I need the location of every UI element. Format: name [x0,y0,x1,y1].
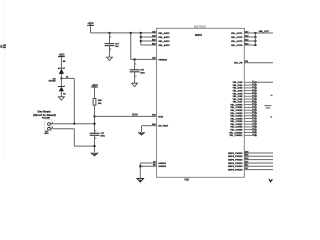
svg-text:A7: A7 [252,97,254,100]
svg-text:VBL_CORE2: VBL_CORE2 [230,110,243,112]
svg-text:VBL_ION4: VBL_ION4 [233,92,244,95]
svg-text:A16: A16 [245,150,248,153]
svg-text:B3: B3 [252,106,254,108]
svg-text:C11: C11 [245,61,248,63]
svg-text:VBL_CORE10: VBL_CORE10 [229,132,243,134]
svg-text:C6: C6 [252,134,254,136]
svg-text:VBL_BAT1: VBL_BAT1 [158,32,170,35]
svg-text:SMPS_PGND4: SMPS_PGND4 [228,165,243,168]
svg-text:SMPS_PGND5: SMPS_PGND5 [228,169,243,171]
svg-text:VBL_OUT1: VBL_OUT1 [231,33,243,35]
svg-text:A4: A4 [252,88,254,91]
svg-text:(Short to Reset): (Short to Reset) [33,113,56,117]
svg-text:A5: A5 [252,91,254,94]
svg-text:VBL_CORE4: VBL_CORE4 [230,115,243,118]
svg-text:BQ76925: BQ76925 [194,24,206,28]
svg-text:1: 1 [110,36,111,38]
svg-text:A13: A13 [152,30,155,33]
svg-text:100n: 100n [100,136,105,138]
svg-text:VBL_BAT3: VBL_BAT3 [158,40,170,43]
svg-text:100n: 100n [140,72,145,74]
svg-text:C2: C2 [252,123,254,125]
svg-text:VBL_CORE6: VBL_CORE6 [230,121,243,123]
svg-text:VBL_CORE8: VBL_CORE8 [230,127,243,129]
svg-text:SR_TEST: SR_TEST [158,126,169,128]
svg-text:C16: C16 [245,158,248,160]
svg-text:BZV55: BZV55 [49,81,57,83]
svg-text:VBL_ION0: VBL_ION0 [233,82,244,84]
svg-text:AGND2: AGND2 [158,165,166,168]
svg-text:B2: B2 [252,103,254,105]
svg-text:A1: A1 [252,80,254,83]
svg-text:A2: A2 [252,83,254,86]
svg-text:VBL_CORE7: VBL_CORE7 [230,124,243,126]
svg-text:VBL_OUT3: VBL_OUT3 [231,41,243,43]
svg-text:PN-1/002: PN-1/002 [42,117,50,119]
svg-text:VBL_CORE5: VBL_CORE5 [230,118,243,120]
svg-text:C1: C1 [252,120,254,122]
svg-text:D13: D13 [152,115,155,117]
svg-text:VBL_ION6: VBL_ION6 [233,99,244,101]
svg-text:VBL_CORE1: VBL_CORE1 [230,107,243,109]
svg-text:VBL_CORE3: VBL_CORE3 [230,113,243,115]
svg-text:SMPS_PGND2: SMPS_PGND2 [228,159,243,161]
svg-text:B4: B4 [252,108,254,111]
svg-text:C3: C3 [252,126,254,128]
svg-text:B7: B7 [252,117,254,119]
svg-text:1: 1 [95,131,96,133]
svg-text:B13: B13 [152,39,155,41]
svg-text:VBL_OUT2: VBL_OUT2 [231,37,243,39]
svg-text:VBL_CORE11: VBL_CORE11 [229,135,243,137]
svg-text:A3: A3 [252,85,254,88]
svg-text:VBL_ION2: VBL_ION2 [233,88,244,90]
svg-text:2: 2 [95,138,96,140]
svg-text:B5: B5 [252,112,254,114]
svg-text:A17: A17 [245,160,248,163]
svg-text:VBL_BAT4: VBL_BAT4 [158,44,170,47]
svg-text:INT1: INT1 [45,133,49,135]
svg-text:RUN: RUN [158,116,163,118]
svg-text:VSENS2: VSENS2 [158,59,167,61]
svg-text:A6: A6 [66,76,68,79]
svg-text:VBL_ION3: VBL_ION3 [233,90,244,92]
svg-text:C13: C13 [245,31,248,33]
svg-text:VBL_OUT: VBL_OUT [259,31,270,33]
svg-text:2: 2 [110,49,111,51]
svg-text:D13: D13 [245,39,248,41]
svg-text:RUN: RUN [132,114,138,117]
svg-text:B17: B17 [245,165,248,167]
svg-text:VBL_ION5: VBL_ION5 [233,96,244,98]
svg-text:SMPS_PGND0: SMPS_PGND0 [228,153,243,155]
svg-text:B1: B1 [252,100,254,102]
svg-text:C5: C5 [252,131,254,133]
svg-text:VBL_CORE9: VBL_CORE9 [230,130,243,132]
svg-text:VBL_ION1: VBL_ION1 [233,85,244,87]
svg-text:1: 1 [135,63,136,65]
svg-text:B16: B16 [245,155,248,157]
svg-text:SMPS_PGND1: SMPS_PGND1 [228,156,243,158]
svg-text:VBL_ION7: VBL_ION7 [233,102,244,104]
svg-text:C4: C4 [252,127,254,130]
svg-text:C17: C17 [245,168,248,170]
svg-text:VBL_OUT4: VBL_OUT4 [231,44,243,47]
svg-text:SMPS_PGND3: SMPS_PGND3 [228,163,243,165]
svg-text:VBL_FB: VBL_FB [234,63,243,65]
svg-text:VBL_CORE0: VBL_CORE0 [230,104,243,106]
svg-text:VBL_BAT2: VBL_BAT2 [158,36,170,39]
svg-text:2: 2 [135,76,136,78]
svg-text:AGND1: AGND1 [158,162,166,165]
svg-text:A15: A15 [152,57,155,60]
svg-text:A6: A6 [252,94,254,97]
svg-text:B6: B6 [252,114,254,116]
svg-text:U13: U13 [185,178,190,181]
svg-text:SMPS: SMPS [195,34,202,37]
